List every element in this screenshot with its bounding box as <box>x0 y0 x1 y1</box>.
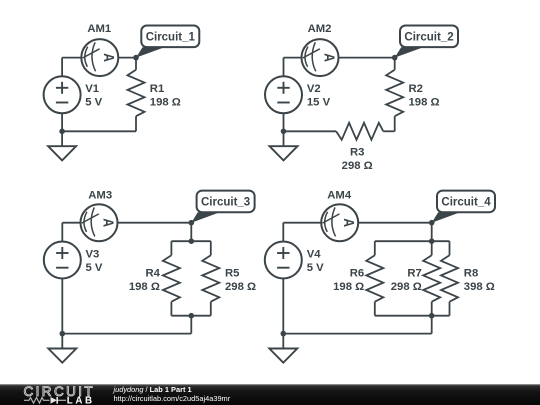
svg-text:198 Ω: 198 Ω <box>333 281 364 293</box>
svg-text:AM3: AM3 <box>88 190 112 202</box>
wire <box>431 241 433 255</box>
svg-text:V2: V2 <box>307 83 321 95</box>
svg-text:R5: R5 <box>225 267 239 279</box>
wire <box>283 333 431 335</box>
wire bottom rail <box>171 315 210 317</box>
svg-text:A: A <box>100 218 117 227</box>
svg-text:298 Ω: 298 Ω <box>391 281 422 293</box>
ground <box>283 131 285 146</box>
resistor R4 <box>163 255 180 301</box>
svg-text:Circuit_3: Circuit_3 <box>201 196 250 208</box>
resistor R8 <box>441 255 458 301</box>
node Circuit_1 flag <box>136 47 165 57</box>
wire <box>284 57 302 59</box>
resistor R3 <box>336 123 383 140</box>
svg-text:R1: R1 <box>150 83 164 95</box>
wire <box>190 223 192 242</box>
node Circuit_1 junction <box>133 55 139 61</box>
resistor R1 <box>128 70 145 116</box>
wire <box>118 57 136 59</box>
svg-text:A: A <box>321 53 338 62</box>
wire bottom rail <box>375 315 450 317</box>
svg-text:Circuit_2: Circuit_2 <box>404 31 453 43</box>
svg-text:judydong / Lab 1 Part 1: judydong / Lab 1 Part 1 <box>113 385 192 394</box>
svg-text:http://circuitlab.com/c2ud5aj4: http://circuitlab.com/c2ud5aj4a39mr <box>114 394 231 403</box>
voltage source V1 <box>44 76 81 113</box>
svg-text:V1: V1 <box>85 83 99 95</box>
node Circuit_2 flag <box>395 47 424 57</box>
svg-text:298 Ω: 298 Ω <box>225 281 256 293</box>
wire <box>394 116 396 131</box>
svg-text:15 V: 15 V <box>307 97 331 109</box>
resistor R5 <box>202 255 219 301</box>
node Circuit_3 junction <box>189 220 195 226</box>
svg-text:Circuit_1: Circuit_1 <box>146 31 196 43</box>
svg-text:LAB: LAB <box>67 395 95 405</box>
node Circuit_4 flag <box>432 212 461 222</box>
svg-text:5 V: 5 V <box>307 262 324 274</box>
svg-text:A: A <box>341 218 358 227</box>
svg-text:R4: R4 <box>145 267 160 279</box>
wire top rail <box>375 240 450 242</box>
wire <box>282 223 284 242</box>
wire <box>449 241 451 255</box>
node Circuit_3 flag <box>191 212 220 222</box>
wire <box>62 57 81 59</box>
wire <box>62 333 191 335</box>
wire top rail <box>171 240 210 242</box>
svg-text:AM1: AM1 <box>87 23 111 35</box>
node Circuit_4 junction <box>429 220 435 226</box>
ammeter AM4 <box>321 204 358 241</box>
wire <box>135 116 137 131</box>
resistor R7 <box>423 255 440 301</box>
voltage source V3 <box>44 242 81 279</box>
junction <box>59 129 65 135</box>
wire <box>210 302 212 316</box>
svg-text:298 Ω: 298 Ω <box>342 160 373 172</box>
svg-text:AM2: AM2 <box>308 23 332 35</box>
wire <box>61 279 63 334</box>
wire <box>339 57 395 59</box>
ammeter AM1 <box>81 39 118 76</box>
svg-text:Circuit_4: Circuit_4 <box>441 196 491 208</box>
wire <box>374 302 376 316</box>
junction <box>429 313 435 319</box>
wire <box>61 113 63 131</box>
junction <box>189 313 195 319</box>
resistor R2 <box>386 70 403 116</box>
wire <box>190 316 192 334</box>
ground <box>282 334 284 349</box>
svg-text:V3: V3 <box>86 249 100 261</box>
wire <box>118 222 192 224</box>
svg-text:R7: R7 <box>407 267 421 279</box>
svg-text:R2: R2 <box>409 83 423 95</box>
wire <box>62 130 136 132</box>
node Circuit_2 junction <box>392 55 398 61</box>
svg-text:A: A <box>101 53 118 62</box>
wire <box>284 130 337 132</box>
junction <box>189 238 195 244</box>
wire <box>61 223 63 242</box>
wire <box>283 222 321 224</box>
wire <box>394 58 396 70</box>
svg-text:AM4: AM4 <box>327 190 352 202</box>
wire <box>431 223 433 242</box>
resistor R6 <box>366 255 383 301</box>
junction <box>60 331 66 337</box>
wire <box>62 222 80 224</box>
svg-text:R8: R8 <box>464 267 478 279</box>
wire <box>383 130 394 132</box>
ground <box>61 334 63 349</box>
svg-text:R3: R3 <box>350 146 364 158</box>
wire <box>282 279 284 334</box>
wire <box>358 222 432 224</box>
wire <box>283 113 285 131</box>
svg-text:198 Ω: 198 Ω <box>129 281 160 293</box>
logo diode <box>51 397 58 404</box>
wire <box>374 241 376 255</box>
svg-text:5 V: 5 V <box>86 262 103 274</box>
wire <box>170 302 172 316</box>
svg-text:198 Ω: 198 Ω <box>409 97 440 109</box>
wire <box>283 58 285 77</box>
ammeter AM3 <box>81 204 118 241</box>
wire <box>170 241 172 255</box>
ammeter AM2 <box>302 39 339 76</box>
wire <box>135 58 137 70</box>
wire <box>210 241 212 255</box>
wire <box>431 316 433 334</box>
voltage source V4 <box>265 242 302 279</box>
svg-text:398 Ω: 398 Ω <box>464 281 495 293</box>
wire <box>431 302 433 316</box>
logo resistor squiggle <box>24 398 50 404</box>
svg-text:R6: R6 <box>350 267 364 279</box>
junction <box>281 331 287 337</box>
ground <box>61 131 63 146</box>
junction <box>429 238 435 244</box>
wire <box>449 302 451 316</box>
svg-text:5 V: 5 V <box>85 97 102 109</box>
junction <box>281 129 287 135</box>
wire <box>61 58 63 77</box>
svg-text:V4: V4 <box>307 249 322 261</box>
voltage source V2 <box>265 76 302 113</box>
svg-text:198 Ω: 198 Ω <box>150 97 181 109</box>
